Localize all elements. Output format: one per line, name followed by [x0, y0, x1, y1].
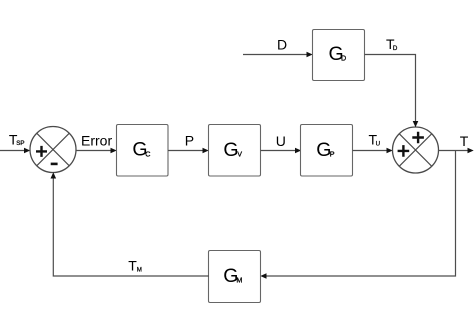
svg-text:U: U — [376, 140, 380, 147]
svg-text:D: D — [393, 45, 398, 52]
summer S1 — [30, 127, 76, 173]
wire P: Gc to Gv — [168, 150, 204, 152]
svg-text:Error: Error — [81, 132, 112, 148]
summer S2 — [393, 127, 439, 173]
wire T output — [439, 150, 470, 152]
block Gd — [313, 30, 365, 81]
block Gc — [117, 125, 169, 177]
wire Td: Gd to S2 top — [365, 55, 416, 123]
minus sign on S1 bottom input — [51, 163, 58, 166]
wire Tm: Gm to S1 bottom — [53, 177, 209, 276]
svg-text:SP: SP — [16, 140, 24, 147]
wire T_SP input — [0, 150, 26, 152]
wire Error: S1 to Gc — [76, 150, 112, 152]
svg-text:P: P — [185, 133, 194, 149]
block Gm — [209, 251, 261, 303]
wire D input — [243, 54, 308, 56]
svg-text:D: D — [277, 36, 287, 52]
svg-text:M: M — [236, 276, 242, 285]
svg-text:U: U — [276, 133, 286, 149]
svg-text:P: P — [330, 149, 335, 158]
svg-text:D: D — [341, 54, 346, 63]
block Gp — [301, 125, 353, 177]
svg-text:C: C — [145, 149, 150, 158]
wire Tu: Gp to S2 — [353, 150, 389, 152]
wire U: Gv to Gp — [261, 150, 297, 152]
plus sign on S2 left input — [398, 145, 410, 157]
svg-text:T: T — [460, 133, 469, 149]
plus sign on S2 top input — [412, 132, 424, 144]
wire feedback tap down and left to Gm — [265, 151, 456, 277]
svg-text:M: M — [137, 267, 142, 274]
plus sign on S1 left input — [36, 146, 47, 157]
block Gv — [209, 125, 261, 177]
svg-text:V: V — [237, 149, 242, 158]
